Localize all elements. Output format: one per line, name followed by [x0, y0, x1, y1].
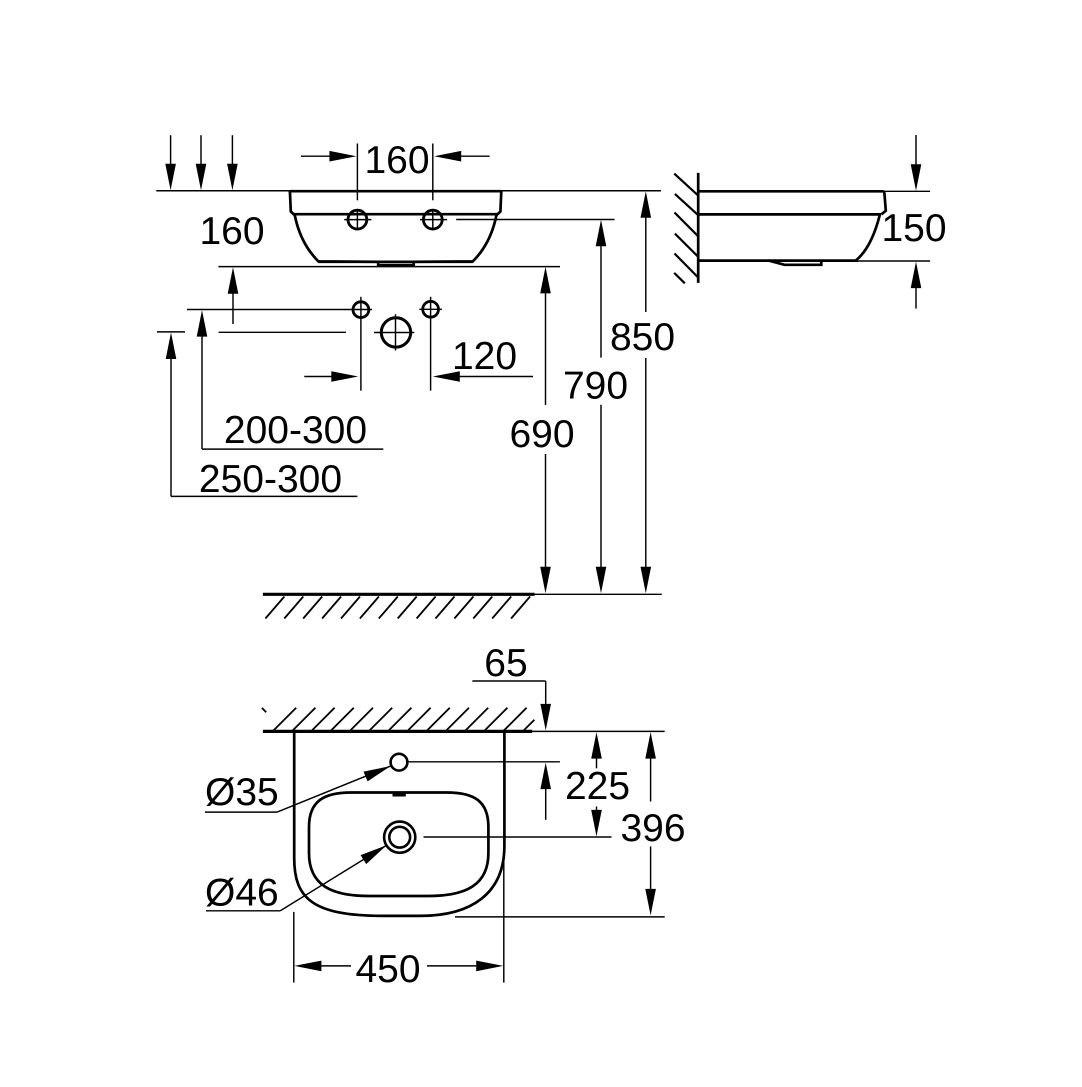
- svg-text:Ø35: Ø35: [205, 771, 279, 814]
- mounting holes reference line: [187, 309, 372, 311]
- mounting hole left: [353, 302, 369, 318]
- dim 450: left arrow: [294, 961, 321, 972]
- svg-text:225: 225: [565, 765, 630, 808]
- plan bottom extension line: [455, 916, 665, 918]
- basin front rim line: [295, 213, 497, 216]
- svg-text:690: 690: [509, 413, 574, 456]
- plan wall hatching: [262, 708, 535, 731]
- down arrow 2 (200-300 ref): [200, 135, 202, 165]
- dim 850 vertical: [641, 191, 652, 218]
- dim 150: extension lines: [885, 190, 931, 192]
- svg-text:450: 450: [355, 948, 420, 991]
- svg-text:790: 790: [563, 365, 628, 408]
- svg-text:850: 850: [610, 316, 675, 359]
- dim 450: right arrow: [476, 961, 503, 972]
- svg-text:65: 65: [484, 642, 527, 685]
- dim 65 lower arrow: [540, 763, 551, 790]
- svg-text:200-300: 200-300: [224, 409, 367, 452]
- basin front outline: [290, 191, 501, 265]
- basin side drain tab: [769, 261, 822, 265]
- mounting hole right: [423, 301, 439, 317]
- line from right tap hole to 790 dim: [456, 219, 614, 221]
- label O46 leader: [206, 910, 280, 912]
- svg-text:150: 150: [881, 207, 946, 250]
- dim 150: bottom arrow: [911, 262, 922, 289]
- basin front top edge: [290, 190, 501, 193]
- reference line under basin: [218, 266, 560, 268]
- faucet hole circle: [381, 318, 410, 347]
- dim 200-300: up arrow leader: [197, 310, 208, 337]
- dim 160 top: extension lines: [356, 144, 358, 201]
- floor hatching: [265, 597, 530, 619]
- floor line: [263, 593, 535, 596]
- dim 450: extension lines: [293, 912, 295, 983]
- plan tap hole: [391, 754, 408, 771]
- plan wall line: [263, 730, 532, 733]
- dim 225: [591, 732, 602, 759]
- tap hole right (front): [423, 210, 442, 229]
- dim 120: left arrow: [304, 376, 332, 378]
- dim 160 vertical: up arrow + label: [228, 267, 239, 294]
- dim 120: right arrow: [460, 376, 534, 378]
- plan drain: [389, 827, 410, 848]
- wall line: [697, 173, 700, 283]
- svg-text:396: 396: [620, 807, 685, 850]
- dim 160 top: right arrow: [461, 155, 490, 157]
- basin plan inner bowl: [309, 793, 488, 897]
- wall hatching: [674, 174, 698, 284]
- basin plan outline: [294, 731, 504, 916]
- dim 65 leader: [472, 680, 545, 682]
- tap hole left (front): [348, 210, 367, 229]
- basin front bottom edge: [318, 260, 472, 263]
- basin side profile: [698, 190, 883, 193]
- svg-text:120: 120: [452, 335, 517, 378]
- overflow notch: [393, 792, 406, 796]
- svg-text:250-300: 250-300: [199, 458, 342, 501]
- dim 790 vertical: [596, 220, 607, 247]
- svg-text:Ø46: Ø46: [205, 872, 279, 915]
- dim 160 top: left arrow: [301, 155, 331, 157]
- reference line top (mirror line): [156, 190, 661, 192]
- down arrow 1 (250-300 ref): [170, 135, 172, 165]
- dim 396: [645, 732, 656, 759]
- svg-text:160: 160: [364, 139, 429, 182]
- faucet hole reference line: [157, 331, 185, 333]
- dim 250-300: up arrow leader: [166, 333, 177, 360]
- svg-text:160: 160: [199, 210, 264, 253]
- down arrow 3 (160 vertical ref): [231, 135, 233, 165]
- dim 690 vertical: [540, 267, 551, 294]
- label O35 leader: [205, 811, 277, 813]
- dim 150: top arrow: [915, 135, 917, 165]
